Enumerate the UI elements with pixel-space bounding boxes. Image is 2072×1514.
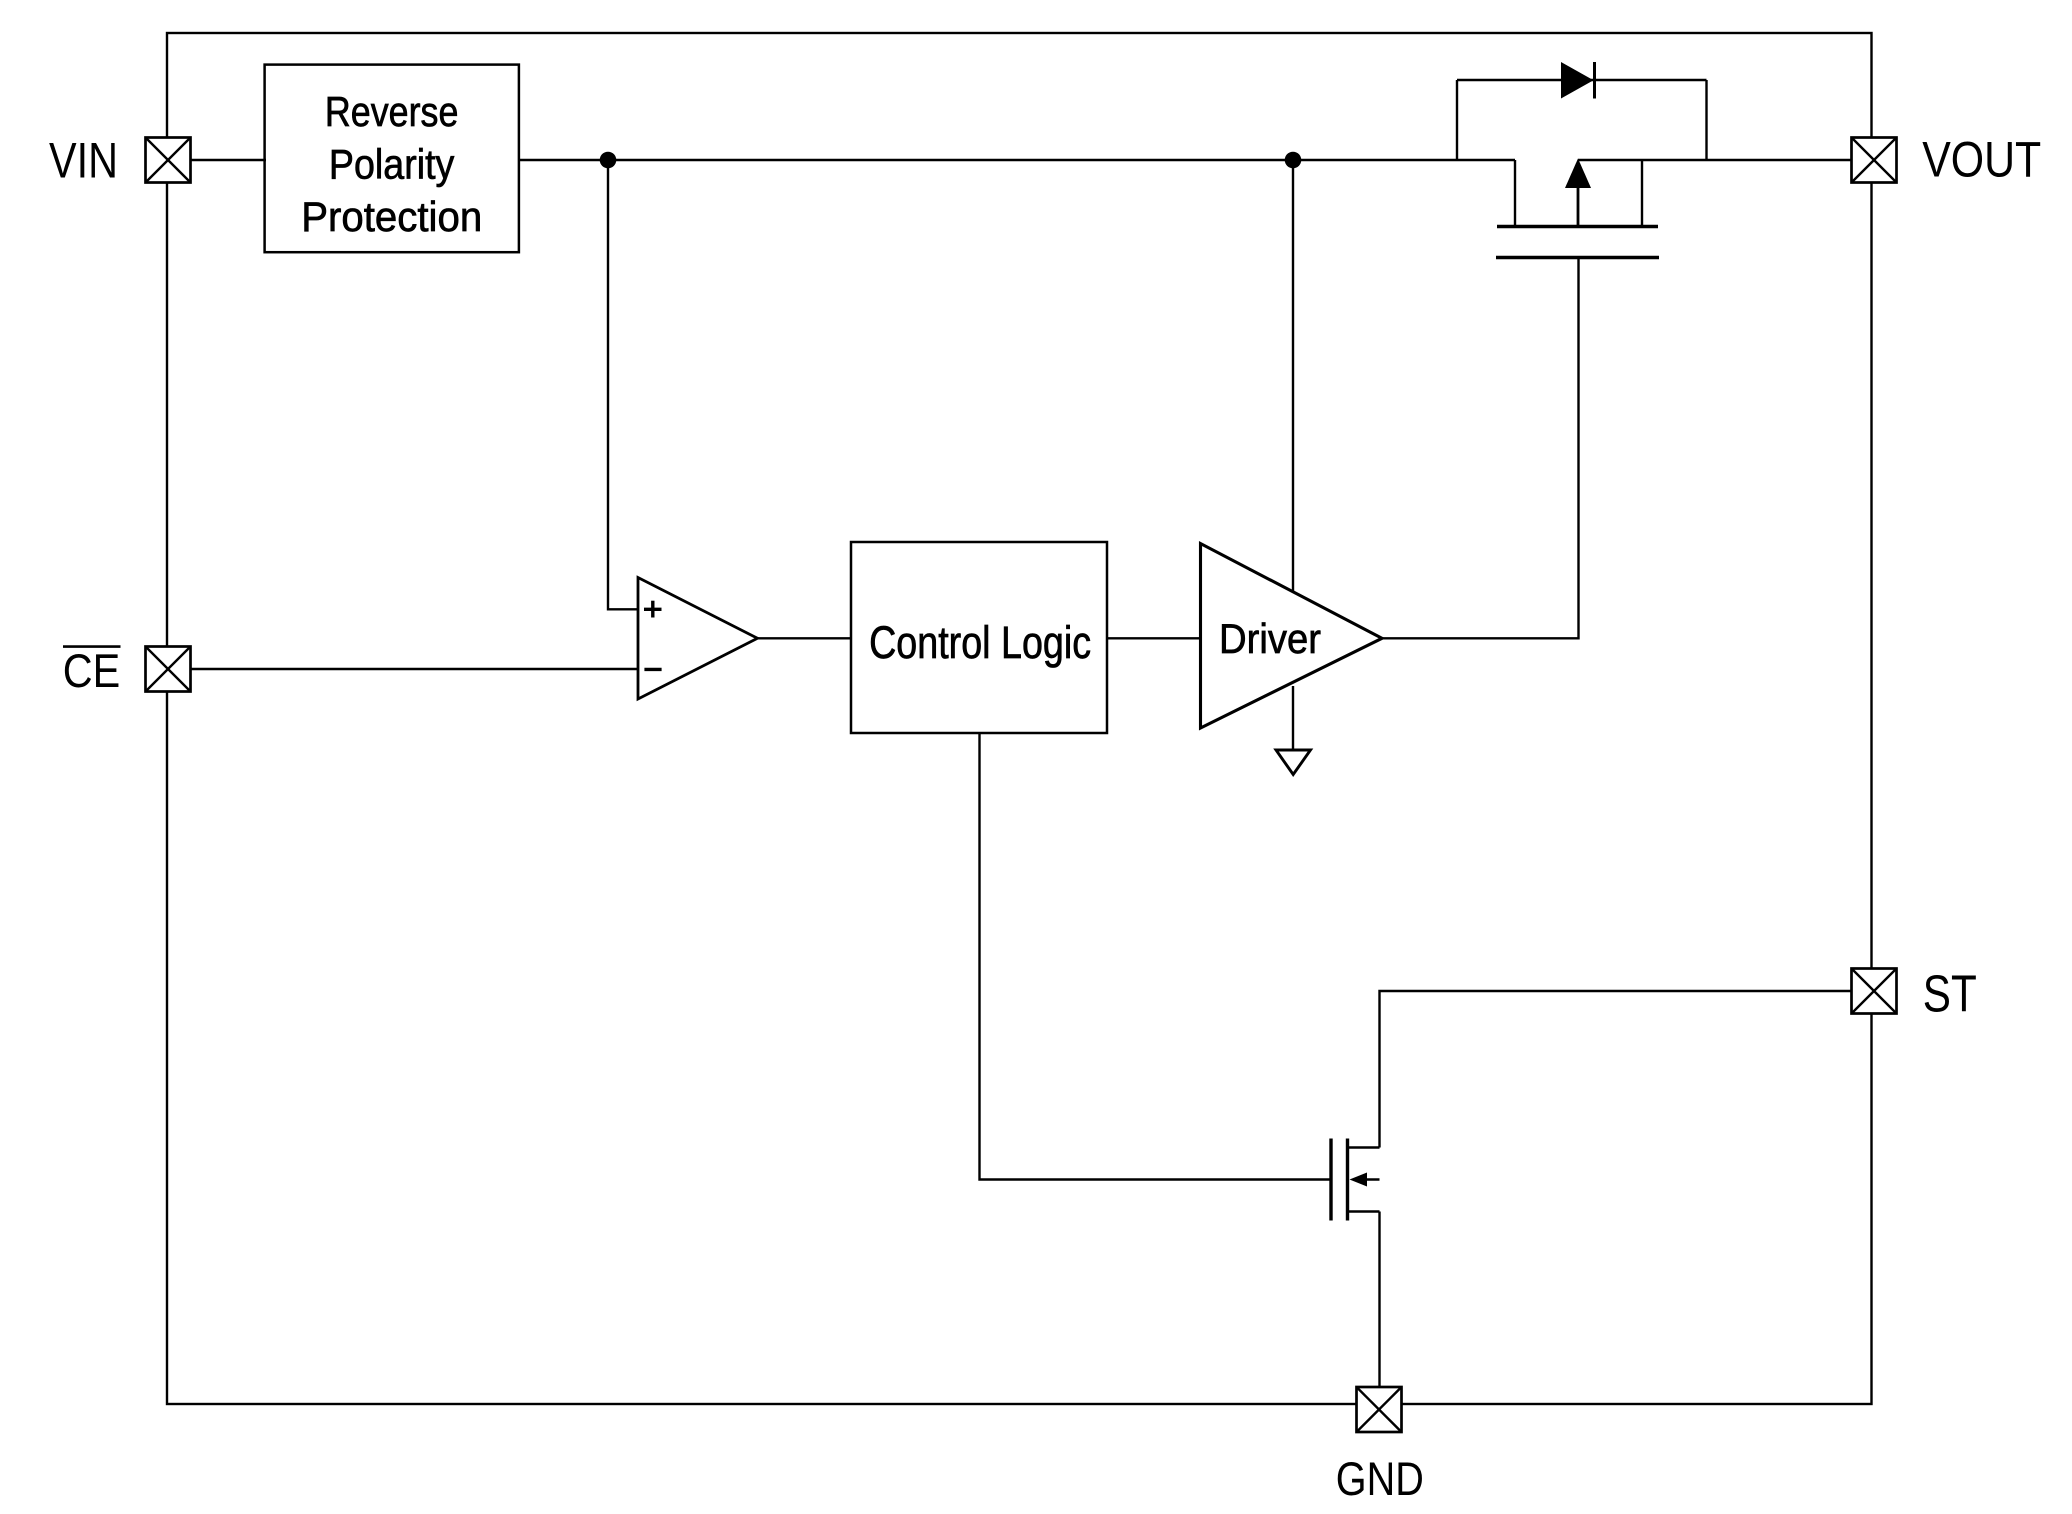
source stub <box>1348 1210 1380 1212</box>
wire diode loop right <box>1705 80 1707 160</box>
wire PMOS bulk/drain to VOUT pin <box>1578 159 1851 161</box>
drain stub <box>1641 160 1643 225</box>
wire diode loop left <box>1456 80 1458 160</box>
driver U2 <box>1201 544 1383 729</box>
svg-text:Control Logic: Control Logic <box>869 617 1091 668</box>
pin VIN <box>146 138 191 183</box>
wire VIN pin to RPP block <box>191 159 266 161</box>
wire comparator output to control logic <box>758 637 852 639</box>
pin GND <box>1357 1387 1402 1432</box>
svg-text:VOUT: VOUT <box>1922 131 2041 187</box>
gate plate <box>1329 1139 1332 1221</box>
transistor Q1 PMOS pass FET <box>1496 159 1659 258</box>
channel bar <box>1497 225 1658 228</box>
wire control logic to driver <box>1107 637 1201 639</box>
node junction dot B (to driver supply) <box>1285 152 1302 169</box>
ground symbol <box>1276 750 1311 775</box>
svg-text:Driver: Driver <box>1219 615 1321 662</box>
svg-text:Reverse: Reverse <box>325 88 459 135</box>
label CE (active low) <box>63 644 121 697</box>
wire NMOS drain to ST pin <box>1380 991 1852 1148</box>
IC boundary box <box>167 33 1872 1404</box>
wire driver bottom to ground <box>1292 686 1294 753</box>
source stub <box>1514 160 1516 225</box>
wire node A down to comparator + input <box>608 160 638 609</box>
pin ST <box>1852 969 1897 1014</box>
gate bar <box>1496 256 1659 259</box>
wire diode loop top <box>1457 79 1707 81</box>
body arrow <box>1355 1178 1380 1180</box>
svg-text:ST: ST <box>1923 966 1977 1024</box>
wire NMOS source to GND pin <box>1378 1212 1380 1388</box>
comparator U1 <box>638 578 758 700</box>
transistor Q2 NMOS status FET <box>1331 1139 1380 1221</box>
pin VOUT <box>1852 138 1897 183</box>
control logic block <box>851 542 1107 733</box>
wire node B down to driver top <box>1292 160 1294 592</box>
wire CE pin to comparator - input <box>191 668 639 670</box>
diode anode triangle <box>1561 62 1594 99</box>
diode cathode bar <box>1593 62 1596 99</box>
drain stub <box>1348 1146 1380 1148</box>
node junction dot A (to comparator +) <box>600 152 617 169</box>
svg-text:VIN: VIN <box>49 133 118 189</box>
body diode D1 <box>1457 62 1707 160</box>
svg-text:CE: CE <box>63 644 120 697</box>
wire RPP block to PMOS source (VIN rail) <box>519 159 1515 161</box>
wire control logic down to NMOS gate <box>980 733 1331 1180</box>
bulk arrow <box>1577 188 1580 225</box>
wire driver output to PMOS gate <box>1382 258 1579 639</box>
svg-text:Polarity: Polarity <box>329 141 455 188</box>
svg-text:GND: GND <box>1336 1453 1424 1506</box>
pin CE <box>146 647 191 692</box>
svg-text:Protection: Protection <box>301 193 482 240</box>
channel bar <box>1346 1139 1349 1221</box>
reverse polarity protection block <box>265 65 519 253</box>
